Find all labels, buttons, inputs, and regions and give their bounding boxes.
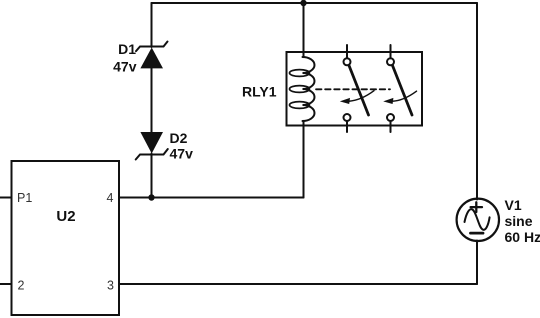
wire right drop to V1 bbox=[476, 3, 478, 200]
svg-text:60 Hz: 60 Hz bbox=[505, 229, 540, 245]
wire relay coil top stub bbox=[303, 3, 305, 57]
svg-text:sine: sine bbox=[505, 213, 533, 229]
wire left drop to D1 bbox=[151, 3, 153, 47]
relay contact 2 blade bbox=[393, 66, 413, 116]
wire U2 pin 4 to relay coil bbox=[119, 197, 304, 199]
relay contact 1 blade bbox=[349, 66, 369, 116]
svg-text:U2: U2 bbox=[56, 208, 75, 225]
wire top rail bbox=[152, 2, 478, 4]
relay RLY1 body bbox=[287, 52, 423, 126]
svg-text:D2: D2 bbox=[170, 130, 188, 146]
svg-text:4: 4 bbox=[107, 191, 114, 205]
wire relay coil bottom drop bbox=[303, 121, 305, 198]
relay contact 2 bottom pin bbox=[390, 121, 392, 132]
zener diode D2 bbox=[136, 132, 168, 160]
node junction top rail / relay coil bbox=[300, 0, 306, 6]
wire D2 to pin-4 net bbox=[151, 154, 153, 198]
relay contact 1 motion arrow bbox=[340, 91, 374, 104]
relay contact 1 top pin bbox=[346, 45, 348, 58]
wire D1 to D2 bbox=[151, 68, 153, 132]
svg-text:3: 3 bbox=[107, 279, 114, 293]
relay RLY1 coil bbox=[290, 57, 315, 121]
svg-text:V1: V1 bbox=[505, 197, 522, 213]
U2 pin 2 stub bbox=[0, 283, 12, 285]
wire V1 bottom link bbox=[476, 241, 478, 285]
svg-text:RLY1: RLY1 bbox=[242, 83, 277, 99]
svg-text:47v: 47v bbox=[170, 146, 194, 162]
relay contact 2 top terminal bbox=[387, 58, 394, 65]
svg-text:2: 2 bbox=[18, 279, 25, 293]
relay contact 1 bottom pin bbox=[346, 121, 348, 132]
IC U2 body bbox=[12, 161, 120, 315]
source V1 bbox=[457, 199, 499, 241]
node junction diode chain / pin-4 wire bbox=[148, 194, 154, 200]
zener diode D1 bbox=[136, 42, 168, 69]
wire U2 pin 3 to V1 bottom bbox=[119, 283, 477, 285]
svg-text:P1: P1 bbox=[17, 191, 32, 205]
relay contact 2 top pin bbox=[390, 45, 392, 58]
relay dashed actuation link bbox=[316, 88, 390, 90]
relay contact 2 bottom terminal bbox=[387, 114, 394, 121]
relay contact 1 bottom terminal bbox=[344, 114, 351, 121]
svg-text:47v: 47v bbox=[113, 58, 137, 74]
relay contact 1 top terminal bbox=[344, 58, 351, 65]
relay contact 2 motion arrow bbox=[383, 91, 416, 104]
svg-text:D1: D1 bbox=[118, 41, 136, 57]
U2 pin 1 stub bbox=[0, 197, 12, 199]
